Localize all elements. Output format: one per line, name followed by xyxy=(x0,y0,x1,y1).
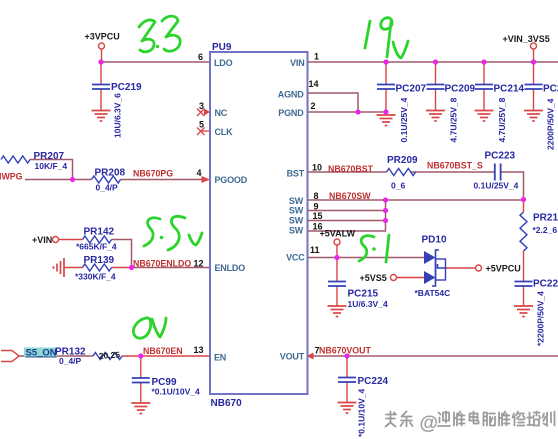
svg-text:*2.2_6: *2.2_6 xyxy=(533,225,558,235)
svg-text:SW: SW xyxy=(289,196,304,206)
svg-text:+3VPCU: +3VPCU xyxy=(85,32,120,42)
wire PR218 to PC221 xyxy=(523,251,525,281)
svg-text:PGOOD: PGOOD xyxy=(215,175,248,185)
annotation 5.1 digit 1 xyxy=(386,235,389,262)
wire +5VALW stem xyxy=(336,245,338,258)
ground under PC209 xyxy=(426,111,445,122)
svg-text:SW: SW xyxy=(289,226,304,236)
wire PR139 to ENLDO node xyxy=(112,267,132,269)
svg-text:4: 4 xyxy=(197,168,202,178)
junction node VIN at PC207 xyxy=(383,59,388,64)
junction node +3VPCU/LDO xyxy=(98,59,103,64)
svg-text:NB670BST: NB670BST xyxy=(328,164,374,174)
svg-text:+5VALW: +5VALW xyxy=(320,229,356,239)
capacitor PC213 xyxy=(525,85,543,90)
svg-text:NB670SW: NB670SW xyxy=(329,191,371,201)
wire VIN rail to cap at x386 xyxy=(385,62,387,84)
svg-text:*BAT54C: *BAT54C xyxy=(415,288,451,298)
capacitor PC207 xyxy=(377,85,395,90)
off-page connector S5_ON xyxy=(1,351,19,362)
wire VCC node to PC215 xyxy=(336,258,338,282)
svg-text:+VIN_3VS5: +VIN_3VS5 xyxy=(503,34,550,44)
power symbol +5VALW xyxy=(334,239,340,245)
pin 3 input arrow xyxy=(204,109,210,116)
svg-text:NB670EN: NB670EN xyxy=(143,346,183,356)
svg-text:6: 6 xyxy=(198,52,203,62)
wire LDO net (+3VPCU to pin 6) xyxy=(101,61,210,63)
junction node VIN at PC214 xyxy=(481,59,486,64)
wire PGND (pin 2) xyxy=(308,111,387,113)
svg-text:12: 12 xyxy=(194,259,204,269)
wire PC221 to ground xyxy=(523,287,525,306)
capacitor PC224 xyxy=(338,378,356,383)
ground (left, rotated) at PR139 xyxy=(54,258,65,277)
wire cap at x484 to ground xyxy=(483,90,485,111)
junction node VIN at PC209 xyxy=(433,59,438,64)
wire VIN rail (pin 1 to +VIN_3VS5) xyxy=(308,61,558,63)
svg-text:S5_ON: S5_ON xyxy=(26,348,57,359)
pin 7 VOUT arrow xyxy=(307,353,314,360)
wire NB670SW (pin 8) xyxy=(308,199,524,201)
ground under PC224 xyxy=(338,403,357,414)
wire SW pin 9 xyxy=(308,210,386,212)
svg-text:PC209: PC209 xyxy=(445,84,476,95)
svg-text:NB670BST_S: NB670BST_S xyxy=(427,161,483,171)
svg-text:PC221: PC221 xyxy=(533,279,558,290)
ground under PC213 xyxy=(524,111,543,122)
annotation 19v digit 1 xyxy=(365,21,370,48)
resistor PR132 xyxy=(93,353,122,360)
junction node EN xyxy=(138,353,143,358)
junction node AGND/PGND xyxy=(355,109,360,114)
wire PC224 to ground xyxy=(346,383,348,402)
svg-text:0.1U/25V_4: 0.1U/25V_4 xyxy=(399,97,409,142)
power symbol +5VPCU xyxy=(476,265,482,271)
wire ground to PR139 xyxy=(65,267,83,269)
junction node VCC xyxy=(334,255,339,260)
power symbol +3VPCU xyxy=(99,43,105,49)
svg-text:10U/6.3V_6: 10U/6.3V_6 xyxy=(113,93,123,138)
svg-text:10: 10 xyxy=(312,163,322,173)
wire VOUT node to PC224 xyxy=(346,356,348,377)
svg-text:*330K/F_4: *330K/F_4 xyxy=(75,272,116,282)
svg-text:11: 11 xyxy=(310,245,320,255)
wire VIN rail to cap at x435.5 xyxy=(435,62,437,84)
svg-text:VOUT: VOUT xyxy=(280,352,305,362)
net S5_ON highlight xyxy=(24,348,57,357)
svg-text:PGND: PGND xyxy=(278,108,304,118)
power symbol +VIN_3VS5 xyxy=(531,43,537,49)
annotation 5.5v first 5 xyxy=(144,218,160,246)
annotation 0v letter v xyxy=(152,318,166,337)
no-connect X on pin 5 CLK xyxy=(197,128,210,136)
svg-text:PR142: PR142 xyxy=(84,227,115,238)
svg-text:1: 1 xyxy=(314,52,319,62)
junction node PGND at PC207 xyxy=(383,109,388,114)
annotation 0v digit 0 xyxy=(133,318,150,338)
resistor PR209 xyxy=(387,169,416,176)
resistor PR142 xyxy=(83,236,112,243)
svg-text:*665K/F_4: *665K/F_4 xyxy=(76,242,117,252)
wire NB670BST_S xyxy=(412,171,495,173)
wire +VIN to PR142 xyxy=(59,239,83,241)
svg-text:PC213: PC213 xyxy=(543,84,558,95)
annotation 19v digit 9 xyxy=(381,18,392,57)
annotation 5.5v dot xyxy=(160,236,164,240)
svg-text:BST: BST xyxy=(287,169,305,179)
svg-text:2: 2 xyxy=(311,101,316,111)
junction node SW 8 xyxy=(383,197,388,202)
wire +VIN_3VS5 stem xyxy=(533,49,535,62)
svg-text:0_4/P: 0_4/P xyxy=(96,183,119,193)
annotation 19v letter v xyxy=(393,41,408,58)
annotation 5.5v second 5 xyxy=(168,216,185,250)
power symbol +VIN xyxy=(53,237,59,243)
svg-text:9: 9 xyxy=(314,202,319,212)
wire diode cathode to +5VPCU xyxy=(446,267,476,269)
wire IWPG net xyxy=(25,179,92,181)
ground under PC214 xyxy=(475,111,494,122)
capacitor PC209 xyxy=(427,85,445,90)
no-connect X on pin 3 NC xyxy=(197,109,205,117)
svg-text:PR139: PR139 xyxy=(84,255,115,266)
wire +5VS5 to diode anode xyxy=(397,277,425,279)
svg-text:LDO: LDO xyxy=(214,58,233,68)
svg-text:EN: EN xyxy=(214,353,226,363)
watermark text 头条 @迅维电脑维修培训 xyxy=(386,412,397,427)
svg-text:VIN: VIN xyxy=(290,58,304,68)
svg-text:SW: SW xyxy=(289,206,304,216)
annotation 3.3 second digit xyxy=(162,16,180,51)
annotation 5.1 digit 5 xyxy=(359,236,374,261)
wire PC215 to ground xyxy=(336,287,338,306)
resistor PR218 xyxy=(520,212,527,251)
svg-text:+5VS5: +5VS5 xyxy=(360,273,387,283)
svg-text:CLK: CLK xyxy=(215,127,234,137)
svg-text:1U/6.3V_4: 1U/6.3V_4 xyxy=(348,299,388,309)
svg-text:NC: NC xyxy=(215,108,228,118)
wire PC207 to PGND node xyxy=(385,90,387,113)
diode PD10 BAT54C xyxy=(424,250,446,286)
resistor PR139 xyxy=(83,264,112,271)
svg-text:PU9: PU9 xyxy=(212,42,232,53)
junction node VOUT xyxy=(344,353,349,358)
svg-text:4.7U/25V_8: 4.7U/25V_8 xyxy=(497,97,507,142)
wire NB670PG to pin 4 xyxy=(121,179,205,181)
wire +3VPCU stem xyxy=(101,49,103,62)
IC PU9 NB670 xyxy=(210,52,308,394)
svg-text:SW: SW xyxy=(289,216,304,226)
wire AGND (pin 14) xyxy=(308,93,359,112)
wire NB670ENLDO to pin 12 xyxy=(132,267,211,269)
wire SW pin 15 xyxy=(308,220,386,222)
capacitor PC219 xyxy=(92,85,110,90)
svg-text:*2200P/50V_4: *2200P/50V_4 xyxy=(536,291,546,346)
ground under PC221 xyxy=(514,306,533,317)
wire NB670VOUT (pin 7) xyxy=(311,355,558,357)
wire VCC (pin 11) to diode anode xyxy=(308,257,425,259)
wire VIN rail to cap at x484 xyxy=(483,62,485,84)
svg-text:0_6: 0_6 xyxy=(391,181,405,191)
svg-text:13: 13 xyxy=(194,345,204,355)
svg-text:PC219: PC219 xyxy=(111,82,142,93)
svg-text:PC224: PC224 xyxy=(358,376,389,387)
svg-text:VCC: VCC xyxy=(286,253,305,263)
svg-text:4.7U/25V_8: 4.7U/25V_8 xyxy=(449,97,459,142)
svg-text:PC214: PC214 xyxy=(494,84,525,95)
capacitor PC221 xyxy=(515,282,533,287)
annotation 3.3 first digit xyxy=(139,20,155,52)
svg-text:*0.1U/10V_4: *0.1U/10V_4 xyxy=(357,389,367,437)
junction node SW 15 xyxy=(383,218,388,223)
wire PC99 to ground xyxy=(140,383,142,403)
wire SW node to PR218 xyxy=(523,200,525,213)
svg-text:14: 14 xyxy=(309,79,319,89)
annotation 5.1 dot xyxy=(372,247,376,251)
svg-text:8: 8 xyxy=(314,191,319,201)
svg-text:PR218: PR218 xyxy=(533,213,558,224)
svg-text:AGND: AGND xyxy=(278,90,304,100)
svg-text:NB670ENLDO: NB670ENLDO xyxy=(133,259,191,269)
svg-text:PD10: PD10 xyxy=(422,235,447,246)
ground under PC207 xyxy=(377,115,396,126)
wire NB670EN to pin 13 xyxy=(122,355,210,357)
annotation 3.3 dot xyxy=(156,45,159,48)
ground under PC99 xyxy=(131,403,150,414)
wire PR142 to ENLDO node xyxy=(112,240,132,268)
capacitor PC214 xyxy=(475,85,493,90)
svg-text:PC223: PC223 xyxy=(485,151,516,162)
junction node PGOOD xyxy=(70,177,75,182)
junction node ENLDO xyxy=(129,265,134,270)
svg-text:+5VPCU: +5VPCU xyxy=(486,264,521,274)
svg-text:*0.1U/10V_4: *0.1U/10V_4 xyxy=(152,387,200,397)
pin 4 PGOOD arrow xyxy=(202,176,211,183)
svg-text:+VIN: +VIN xyxy=(32,235,52,245)
capacitor PC223 (series) xyxy=(495,164,501,181)
power symbol +5VS5 xyxy=(391,275,397,281)
annotation 5.5v letter v xyxy=(189,233,202,245)
svg-text:IWPG: IWPG xyxy=(0,172,23,182)
capacitor PC99 xyxy=(132,378,150,383)
svg-text:@: @ xyxy=(420,413,439,434)
wire BST_S to SW node xyxy=(502,172,524,200)
wire PR207 to PGOOD node xyxy=(30,160,73,180)
junction node SW 9 xyxy=(383,208,388,213)
wire cap at x435.5 to ground xyxy=(435,90,437,111)
ground under PC219 xyxy=(92,111,111,122)
wire S5_ON to PR132 xyxy=(19,355,93,357)
svg-text:0.1U/25V_4: 0.1U/25V_4 xyxy=(474,181,519,191)
wire EN node to PC99 xyxy=(140,356,142,378)
svg-text:20.25: 20.25 xyxy=(98,350,120,361)
svg-text:NB670: NB670 xyxy=(211,398,243,409)
ground under PC215 xyxy=(328,306,347,317)
junction node SW/BST_S xyxy=(521,197,526,202)
wire PGND node to ground xyxy=(385,112,387,115)
capacitor PC215 xyxy=(328,282,346,287)
wire cap at x533.5 to ground xyxy=(533,90,535,111)
svg-text:NB670PG: NB670PG xyxy=(133,169,173,179)
wire SW pin 16 and SW bus xyxy=(308,200,386,231)
wire VIN rail to cap at x533.5 xyxy=(533,62,535,84)
wire PC219 to ground xyxy=(100,90,102,111)
resistor PR207 xyxy=(1,156,30,163)
svg-text:NB670VOUT: NB670VOUT xyxy=(319,346,371,356)
svg-text:0_4/P: 0_4/P xyxy=(59,356,82,366)
svg-text:PC207: PC207 xyxy=(396,84,427,95)
svg-text:2200P/50V_4: 2200P/50V_4 xyxy=(546,98,556,150)
svg-text:ENLDO: ENLDO xyxy=(215,263,246,273)
svg-text:15: 15 xyxy=(313,211,323,221)
svg-text:10K/F_4: 10K/F_4 xyxy=(35,161,68,171)
svg-text:PR208: PR208 xyxy=(95,168,126,179)
svg-text:PC215: PC215 xyxy=(348,289,379,300)
resistor PR208 xyxy=(92,176,121,183)
svg-text:PR209: PR209 xyxy=(387,155,418,166)
wire +3VPCU node to PC219 xyxy=(100,62,102,84)
wire NB670BST (pin 10) xyxy=(308,171,387,173)
junction node VIN at PC213 xyxy=(531,59,536,64)
